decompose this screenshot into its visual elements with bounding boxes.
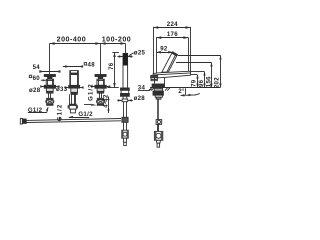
valve V2 thread shank (97, 88, 104, 91)
svg-text:ø25: ø25 (134, 50, 146, 57)
svg-text:2°: 2° (178, 89, 185, 95)
svg-text:200-400: 200-400 (57, 36, 87, 44)
hose junction nut (122, 117, 128, 122)
spout connector (68, 104, 78, 113)
svg-text:202: 202 (214, 77, 221, 88)
side drop tube (158, 99, 159, 119)
svg-text:ø33: ø33 (56, 86, 68, 93)
svg-text:G1/2: G1/2 (78, 111, 93, 118)
dimension o28 valve V2 arrows (91, 85, 110, 87)
valve V1 stem (49, 93, 51, 98)
svg-text:100-200: 100-200 (102, 36, 132, 44)
side end taper (156, 140, 160, 147)
spout nose aerator (151, 76, 158, 81)
valve V1 connector (45, 98, 54, 105)
valve V1 handle (44, 75, 55, 80)
spout escutcheon (69, 85, 80, 88)
label G1/2 spout (69, 116, 89, 118)
valve V2 connector (96, 98, 105, 105)
spout shank (71, 88, 78, 94)
dimension 76 shower height (107, 52, 118, 87)
valve V1 body (46, 79, 53, 85)
svg-text:76: 76 (108, 62, 115, 70)
label G1/2 rotated valve V2 (84, 83, 97, 106)
svg-text:48: 48 (88, 61, 96, 68)
side small band (156, 97, 161, 99)
handshower neck (123, 96, 127, 99)
valve V2 handle (95, 75, 106, 80)
side fitting small (156, 120, 162, 125)
dimension square-48 (63, 65, 83, 68)
handshower shaft (123, 53, 128, 88)
dimension 4-42 deck thickness (107, 97, 109, 114)
side thread shank (154, 88, 162, 91)
valve V1 escutcheon (44, 85, 55, 88)
svg-text:34: 34 (138, 84, 146, 91)
side lower band (155, 95, 162, 97)
label G1/2 rotated left (56, 104, 63, 122)
dimension 92 (156, 51, 173, 54)
dimension 224 (153, 26, 190, 74)
svg-text:ø28: ø28 (134, 95, 146, 102)
dimension 96 (191, 72, 206, 88)
angle 2 deg (180, 88, 199, 96)
dimension 200-400 (50, 42, 101, 74)
handshower escutcheon (121, 88, 130, 90)
valve V2 body (97, 79, 104, 85)
svg-text:G1/2: G1/2 (28, 107, 43, 114)
svg-text:92: 92 (160, 45, 168, 52)
shower hose (26, 119, 121, 123)
side tube lower (158, 124, 159, 131)
hose hex fitting (122, 130, 129, 138)
side escutcheon (154, 78, 156, 84)
dimension o25 handshower (117, 53, 133, 58)
handshower mounting nut (121, 94, 130, 97)
dimension 176 (156, 36, 188, 74)
dimension 100-200 (101, 42, 126, 74)
spout inlet tubes (70, 94, 76, 104)
side mounting nut (153, 91, 163, 95)
dimension o28 valve V1 (40, 85, 59, 87)
handshower hose nipple (122, 99, 128, 102)
valve V2 stem (100, 93, 102, 98)
dimension 79 (191, 75, 199, 88)
label G1/2 valve V1 (28, 107, 49, 113)
svg-text:60: 60 (33, 75, 41, 82)
svg-text:4-42: 4-42 (103, 94, 110, 108)
dimension o33 spout (65, 86, 84, 88)
faucet body side view (153, 71, 190, 78)
svg-text:G1/2: G1/2 (87, 83, 94, 101)
dimension 202 (178, 55, 222, 87)
valve V2 escutcheon (95, 85, 106, 88)
handshower drop tube (124, 102, 127, 118)
dimension o28 handshower thread (117, 99, 132, 101)
side fitting large (154, 131, 162, 140)
faucet lever side view (162, 52, 178, 72)
svg-text:54: 54 (33, 64, 41, 71)
svg-text:ø28: ø28 (29, 87, 41, 94)
hose end connector left (20, 118, 26, 124)
tube below junction (124, 122, 127, 130)
handshower collar (121, 90, 129, 93)
svg-text:96: 96 (198, 79, 205, 87)
label square-60 (41, 79, 47, 81)
label 34 side shank (138, 89, 153, 92)
svg-text:79: 79 (191, 79, 198, 87)
svg-text:156: 156 (205, 76, 212, 87)
valve V1 thread shank (46, 88, 53, 91)
deck line (149, 88, 220, 91)
dimension 54 (39, 70, 60, 73)
svg-text:176: 176 (167, 31, 178, 38)
dimension 156 (176, 63, 213, 88)
hose end taper (123, 138, 126, 145)
svg-text:224: 224 (167, 21, 178, 28)
spout column (70, 71, 79, 86)
